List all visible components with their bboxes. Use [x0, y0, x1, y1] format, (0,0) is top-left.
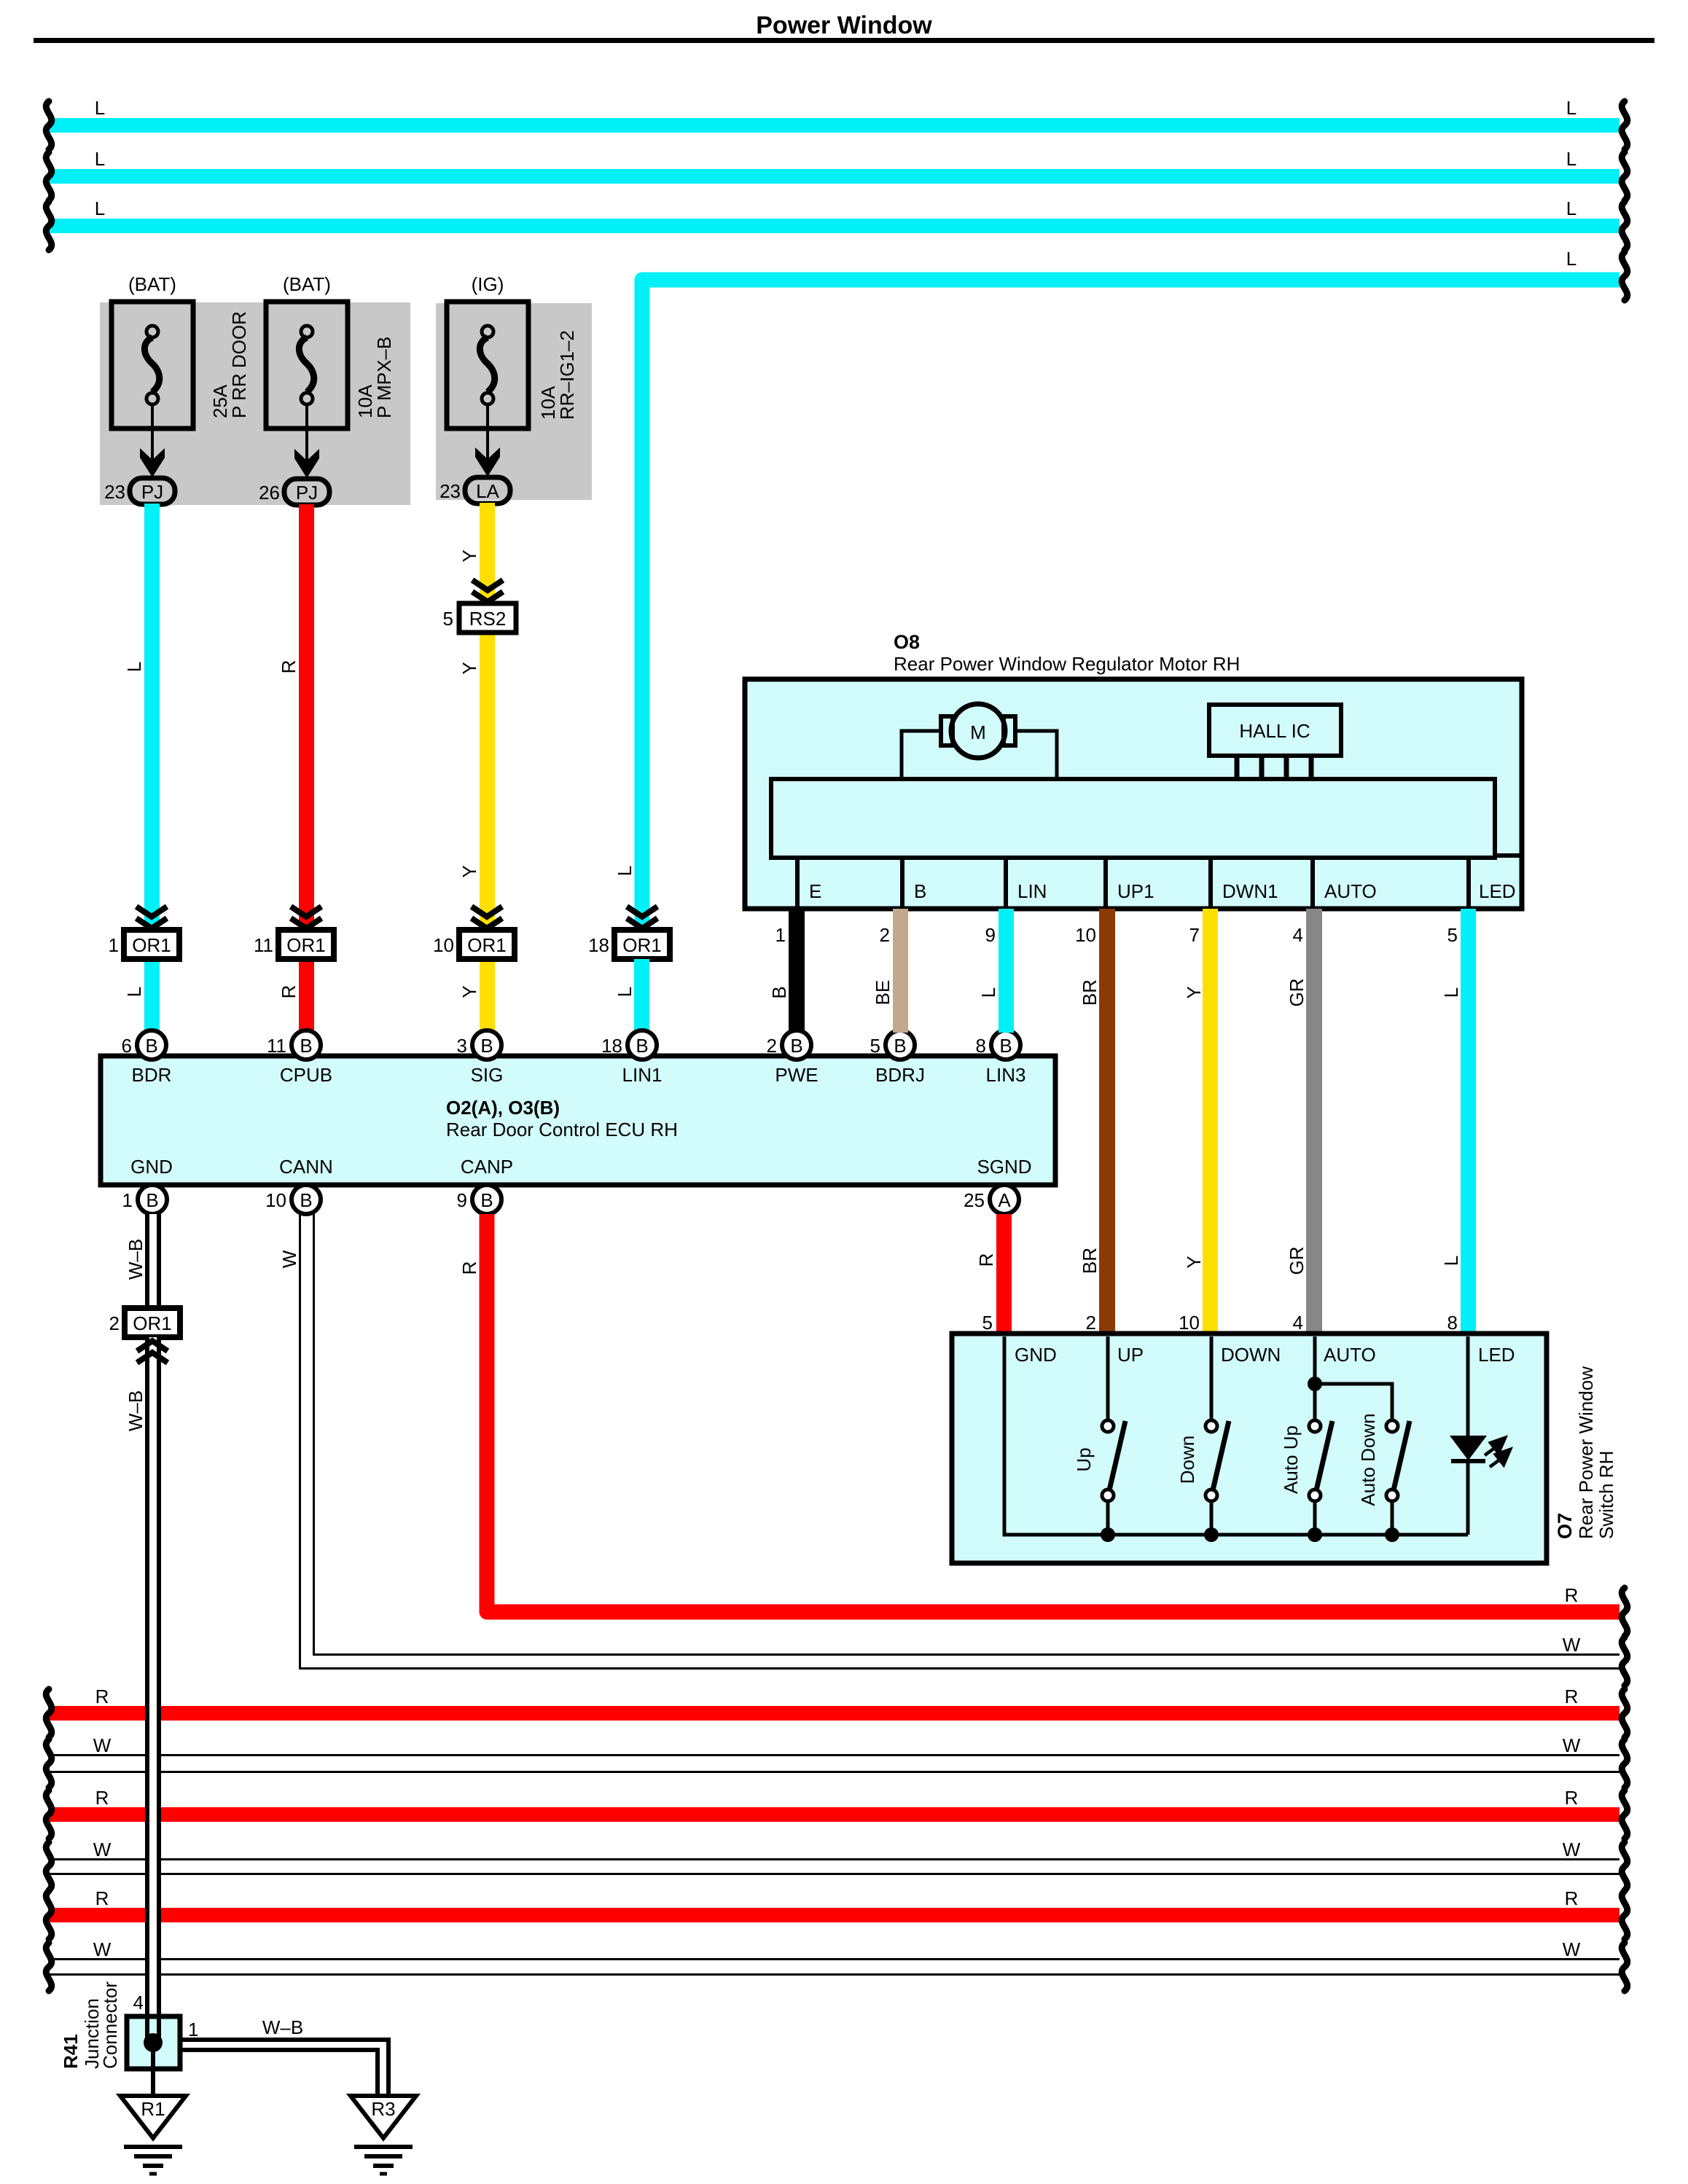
wire W-B lower part crossing buses — [145, 1337, 161, 2016]
LED emission arrows — [1485, 1438, 1510, 1467]
ground R1 — [120, 2096, 186, 2174]
wire L bus 1 (top) — [50, 118, 1619, 133]
svg-text:2: 2 — [109, 1312, 120, 1334]
svg-text:(BAT): (BAT) — [128, 273, 176, 295]
svg-text:R1: R1 — [141, 2098, 165, 2120]
svg-text:DWN1: DWN1 — [1222, 880, 1278, 902]
svg-text:9: 9 — [985, 924, 996, 946]
wire L (cyan) O8 pin5 LED to switch LED — [1461, 909, 1476, 1334]
wire GR (gray) O8 pin4 AUTO to switch AUTO — [1306, 909, 1322, 1334]
R41 junction dot — [144, 2033, 163, 2052]
svg-text:BDRJ: BDRJ — [875, 1064, 925, 1086]
svg-text:BR: BR — [1079, 979, 1101, 1006]
svg-text:OR1: OR1 — [133, 1312, 171, 1334]
svg-text:R: R — [1565, 1686, 1579, 1707]
svg-text:CPUB: CPUB — [280, 1064, 332, 1086]
svg-text:R: R — [1565, 1584, 1579, 1606]
svg-text:GR: GR — [1286, 979, 1308, 1007]
svg-text:LA: LA — [476, 480, 499, 502]
svg-text:OR1: OR1 — [132, 934, 171, 956]
svg-text:8: 8 — [976, 1035, 986, 1057]
svg-text:UP: UP — [1117, 1344, 1144, 1366]
squiggle right bus3 — [1622, 202, 1628, 250]
svg-text:5: 5 — [443, 608, 453, 630]
svg-text:Switch RH: Switch RH — [1595, 1451, 1617, 1539]
svg-text:23: 23 — [439, 480, 461, 502]
svg-text:LIN: LIN — [1017, 880, 1047, 902]
chevron wire1 — [136, 907, 167, 928]
svg-text:6: 6 — [122, 1035, 132, 1057]
squiggle R CANP right — [1622, 1588, 1628, 1636]
svg-text:LIN1: LIN1 — [622, 1064, 663, 1086]
svg-text:10: 10 — [1179, 1312, 1200, 1334]
svg-text:Auto Up: Auto Up — [1280, 1425, 1302, 1494]
svg-text:B: B — [768, 986, 790, 998]
svg-text:Y: Y — [458, 865, 480, 877]
connector 1 OR1 — [124, 930, 179, 959]
connector 23 LA — [465, 477, 510, 504]
wire W CANN from ECU pin10 to right edge — [300, 1214, 1620, 1669]
svg-text:CANN: CANN — [279, 1156, 333, 1178]
svg-text:BE: BE — [872, 980, 894, 1006]
svg-text:SGND: SGND — [977, 1156, 1031, 1178]
svg-text:5: 5 — [982, 1312, 993, 1334]
svg-text:BDR: BDR — [132, 1064, 172, 1086]
title underline — [34, 38, 1654, 43]
svg-text:Y: Y — [458, 985, 480, 998]
LED symbol — [1466, 1336, 1470, 1437]
svg-text:R: R — [458, 1261, 480, 1275]
svg-text:LED: LED — [1479, 880, 1516, 902]
ECU box O2(A) O3(B) Rear Door Control ECU RH — [101, 1056, 1055, 1185]
svg-text:B: B — [914, 880, 926, 902]
O8 pin dividers — [795, 858, 800, 909]
squiggle right bus1 — [1622, 101, 1628, 149]
svg-text:GND: GND — [1015, 1344, 1057, 1366]
O7 Rear Power Window Switch RH box — [952, 1334, 1547, 1563]
svg-text:B: B — [790, 1035, 802, 1057]
svg-text:2: 2 — [767, 1035, 777, 1057]
svg-text:B: B — [146, 1189, 158, 1211]
svg-text:O2(A), O3(B): O2(A), O3(B) — [446, 1097, 560, 1119]
junction connector R41 — [127, 2016, 180, 2069]
wire B (black) O8 pin1 E to ECU PWE — [789, 909, 805, 1033]
svg-text:R: R — [975, 1253, 997, 1267]
arrow fuse3 to connector — [475, 447, 500, 477]
svg-text:11: 11 — [267, 1035, 286, 1057]
svg-text:W: W — [1563, 1634, 1581, 1656]
connector 26 PJ — [284, 479, 329, 505]
pin 10 B bottom — [292, 1185, 321, 1214]
wire R41 to ground R1 — [151, 2043, 155, 2097]
svg-text:11: 11 — [254, 934, 273, 956]
svg-text:18: 18 — [601, 1035, 622, 1057]
svg-text:OR1: OR1 — [467, 934, 506, 956]
wire W bus bottom 3 — [50, 1958, 1619, 1960]
svg-text:Y: Y — [1183, 986, 1205, 998]
wire L from 23 PJ down to ECU BDR — [144, 504, 160, 1032]
squiggle right bus4 — [1622, 252, 1628, 300]
pin 11 B — [292, 1030, 321, 1060]
svg-text:Up: Up — [1073, 1447, 1095, 1471]
svg-text:AUTO: AUTO — [1324, 1344, 1376, 1366]
svg-text:(IG): (IG) — [472, 273, 504, 295]
svg-text:Power Window: Power Window — [756, 12, 932, 39]
svg-text:W: W — [93, 1734, 112, 1756]
svg-text:B: B — [480, 1189, 493, 1211]
svg-text:W: W — [278, 1250, 300, 1268]
wire R (red) ECU SGND pin25 to switch GND — [996, 1214, 1012, 1334]
pin 2 B — [782, 1030, 811, 1060]
svg-text:10: 10 — [1075, 924, 1096, 946]
switch Down — [1210, 1336, 1214, 1421]
svg-text:L: L — [1440, 987, 1462, 998]
squiggle left bus3 — [46, 202, 52, 250]
svg-text:(BAT): (BAT) — [283, 273, 331, 295]
svg-text:Rear Power Window: Rear Power Window — [1575, 1366, 1597, 1539]
svg-text:Connector: Connector — [99, 1981, 121, 2069]
svg-text:8: 8 — [1447, 1312, 1458, 1334]
svg-text:B: B — [999, 1035, 1012, 1057]
svg-text:2: 2 — [880, 924, 890, 946]
svg-text:O7: O7 — [1554, 1513, 1576, 1539]
pin 9 B bottom — [472, 1185, 501, 1214]
svg-text:R: R — [95, 1887, 109, 1909]
svg-text:B: B — [300, 1189, 312, 1211]
arrow fuse1 to connector — [140, 448, 165, 477]
O8 inner board box — [771, 779, 1495, 858]
wire L (cyan) O8 pin9 LIN to ECU LIN3 — [999, 909, 1014, 1033]
svg-text:SIG: SIG — [471, 1064, 504, 1086]
svg-text:A: A — [998, 1189, 1011, 1211]
svg-text:B: B — [636, 1035, 648, 1057]
svg-text:RS2: RS2 — [469, 608, 507, 630]
wire BE (beige) O8 pin2 B to ECU BDRJ — [893, 909, 908, 1033]
AUTO feed node — [1313, 1336, 1317, 1421]
svg-text:L: L — [1566, 248, 1576, 270]
wire W-B into R41 — [145, 2016, 161, 2043]
svg-text:W: W — [93, 1839, 112, 1860]
svg-text:DOWN: DOWN — [1221, 1344, 1281, 1366]
svg-text:2: 2 — [1086, 1312, 1096, 1334]
svg-text:W: W — [1563, 1938, 1581, 1960]
svg-text:P MPX–B: P MPX–B — [373, 337, 395, 418]
chevron wire2 — [291, 907, 321, 928]
svg-text:W–B: W–B — [125, 1390, 146, 1431]
svg-text:AUTO: AUTO — [1324, 880, 1377, 902]
svg-text:Y: Y — [458, 662, 480, 674]
svg-text:5: 5 — [1447, 924, 1458, 946]
wire BR (brown) O8 pin10 UP1 to switch UP — [1099, 909, 1115, 1334]
svg-text:PWE: PWE — [775, 1064, 818, 1086]
wire L4 continue to ECU LIN1 — [634, 959, 649, 1032]
fuse 10A P MPX-B — [266, 302, 348, 466]
squiggle left bus1 — [46, 101, 52, 149]
svg-text:R: R — [95, 1686, 109, 1707]
connector 23 PJ — [130, 478, 175, 504]
HALL IC legs — [1235, 756, 1240, 780]
fuse 10A RR-IG1-2 — [447, 302, 528, 466]
svg-text:26: 26 — [259, 482, 280, 504]
svg-text:L: L — [977, 987, 999, 998]
wire R bus bottom 3 — [50, 1908, 1619, 1922]
svg-text:1: 1 — [775, 924, 786, 946]
svg-text:W: W — [93, 1938, 112, 1960]
svg-text:R3: R3 — [371, 2098, 395, 2120]
pin 1 B bottom — [138, 1185, 167, 1214]
svg-text:L: L — [1566, 148, 1576, 170]
connector 18 OR1 — [614, 930, 670, 959]
svg-text:W: W — [1563, 1734, 1581, 1756]
pin 6 B — [137, 1030, 166, 1060]
svg-text:3: 3 — [457, 1035, 467, 1057]
svg-text:L: L — [614, 866, 636, 876]
svg-text:GR: GR — [1286, 1247, 1308, 1275]
svg-text:L: L — [1566, 197, 1576, 219]
HALL IC box — [1209, 705, 1341, 756]
svg-text:L: L — [123, 987, 145, 997]
wire L bus 2 — [50, 169, 1619, 184]
svg-text:Rear Power Window Regulator Mo: Rear Power Window Regulator Motor RH — [894, 653, 1240, 675]
svg-text:OR1: OR1 — [286, 934, 325, 956]
svg-text:18: 18 — [588, 934, 609, 956]
svg-text:23: 23 — [104, 481, 125, 503]
squiggle W CANN right — [1622, 1637, 1628, 1686]
svg-text:R: R — [1565, 1887, 1579, 1909]
gray background fuse block IG — [436, 303, 592, 500]
svg-text:OR1: OR1 — [622, 934, 661, 956]
svg-text:L: L — [95, 97, 105, 119]
wire motor left — [902, 731, 941, 779]
svg-text:E: E — [809, 880, 821, 902]
svg-text:W–B: W–B — [125, 1239, 146, 1280]
connector 10 OR1 — [459, 930, 515, 959]
svg-text:10: 10 — [265, 1189, 286, 1211]
switch Up — [1106, 1336, 1110, 1421]
svg-text:W: W — [1563, 1839, 1581, 1860]
pin 3 B — [472, 1030, 501, 1060]
wire R CANP from ECU pin9 to right edge — [487, 1214, 1619, 1612]
svg-text:W–B: W–B — [262, 2016, 303, 2038]
svg-text:CANP: CANP — [461, 1156, 513, 1178]
svg-text:L: L — [123, 662, 145, 672]
squiggle right bus2 — [1622, 152, 1628, 200]
wire W-B from R41 pin1 to ground R3 — [180, 2040, 388, 2097]
svg-text:R: R — [95, 1787, 109, 1809]
wire L bus 4 (corner down to LIN1) — [642, 280, 1619, 933]
pin 25 A bottom — [990, 1185, 1019, 1214]
svg-text:GND: GND — [130, 1156, 173, 1178]
chevron wire4 — [627, 907, 657, 928]
svg-text:5: 5 — [870, 1035, 880, 1057]
svg-text:Auto Down: Auto Down — [1357, 1413, 1379, 1506]
wire W-B from ECU GND pin1 down (upper part) — [145, 1214, 161, 1309]
motor M — [951, 704, 1005, 758]
wire R from 26 PJ down to ECU CPUB — [299, 504, 314, 1032]
pin 5 B — [886, 1030, 915, 1060]
chevron wire3 at RS2 — [472, 580, 503, 602]
svg-text:R: R — [278, 660, 300, 674]
gray background fuse block BAT — [100, 302, 410, 505]
svg-text:LIN3: LIN3 — [986, 1064, 1026, 1086]
fuse 25A P RR DOOR — [112, 302, 193, 466]
wire motor right — [1015, 731, 1057, 779]
connector 11 OR1 — [278, 930, 334, 959]
svg-text:L: L — [1566, 97, 1576, 119]
svg-text:R: R — [1565, 1787, 1579, 1809]
svg-text:1: 1 — [188, 2019, 198, 2040]
connector 5 RS2 — [459, 603, 516, 633]
chevron up below OR1 — [137, 1341, 168, 1363]
wire R bus bottom 2 — [50, 1807, 1619, 1822]
pin 8 B — [991, 1030, 1020, 1060]
connector 2 OR1 — [125, 1308, 180, 1337]
switch Auto Down — [1386, 1420, 1410, 1501]
svg-text:10: 10 — [433, 934, 454, 956]
wire L bus 3 — [50, 219, 1619, 233]
svg-text:B: B — [145, 1035, 157, 1057]
svg-text:RR–IG1–2: RR–IG1–2 — [556, 330, 578, 420]
svg-text:1: 1 — [122, 1189, 133, 1211]
svg-text:B: B — [480, 1035, 493, 1057]
svg-text:BR: BR — [1079, 1248, 1101, 1274]
svg-text:7: 7 — [1189, 924, 1200, 946]
svg-text:Down: Down — [1176, 1436, 1198, 1484]
svg-text:PJ: PJ — [296, 482, 318, 504]
squiggle left bus2 — [46, 152, 52, 200]
svg-text:M: M — [970, 721, 986, 743]
svg-text:UP1: UP1 — [1117, 880, 1154, 902]
svg-text:L: L — [95, 148, 105, 170]
svg-text:Rear Door Control ECU RH: Rear Door Control ECU RH — [446, 1119, 678, 1140]
wire W bus bottom 2 — [50, 1858, 1619, 1860]
svg-text:HALL IC: HALL IC — [1239, 720, 1310, 742]
svg-text:O8: O8 — [894, 631, 920, 653]
svg-text:Y: Y — [458, 549, 480, 562]
wire Y (yellow) O8 pin7 DWN1 to switch DOWN — [1203, 909, 1218, 1334]
O7 GND internal wire — [1004, 1336, 1468, 1535]
arrow fuse2 to connector — [294, 449, 319, 478]
svg-text:PJ: PJ — [141, 481, 163, 503]
svg-text:Y: Y — [1183, 1256, 1205, 1268]
svg-text:P RR DOOR: P RR DOOR — [228, 311, 250, 418]
ground R3 — [351, 2096, 416, 2174]
svg-text:LED: LED — [1478, 1344, 1515, 1366]
wire Y from 23 LA down to ECU SIG — [480, 503, 495, 1032]
svg-text:R41: R41 — [60, 2034, 82, 2069]
svg-text:L: L — [614, 987, 636, 997]
svg-text:L: L — [95, 197, 105, 219]
svg-text:4: 4 — [1293, 924, 1303, 946]
chevron wire3 at OR1 — [472, 907, 502, 928]
svg-text:B: B — [300, 1035, 312, 1057]
wire R bus bottom 1 — [50, 1706, 1619, 1721]
pin 18 B — [628, 1030, 657, 1060]
O8 Rear Power Window Regulator Motor RH box — [745, 679, 1522, 909]
wire W bus bottom 1 — [50, 1754, 1619, 1756]
svg-text:1: 1 — [109, 934, 119, 956]
svg-text:R: R — [278, 985, 300, 999]
svg-text:9: 9 — [457, 1189, 467, 1211]
svg-text:4: 4 — [1293, 1312, 1303, 1334]
svg-text:4: 4 — [133, 1992, 144, 2013]
svg-text:L: L — [1440, 1256, 1462, 1266]
switch Auto Up — [1309, 1420, 1332, 1501]
svg-text:B: B — [894, 1035, 906, 1057]
svg-text:25: 25 — [964, 1189, 985, 1211]
